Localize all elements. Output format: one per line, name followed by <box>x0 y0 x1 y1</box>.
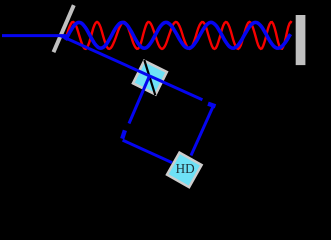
mirror M3 (right corner nub) <box>208 104 216 107</box>
mirror M1 (tilted partial mirror) <box>54 5 74 52</box>
mirror M2 (right end mirror) <box>296 15 306 65</box>
wire: left corner to HD <box>123 140 172 163</box>
mirror M4 (left corner nub) <box>122 130 125 138</box>
wire: beam from mirror through BS to right corner <box>60 36 202 100</box>
wire: input beam <box>2 34 67 37</box>
homodyne detector HD box <box>167 153 202 188</box>
svg-text:HD: HD <box>176 161 195 176</box>
wire: right corner to HD <box>191 105 214 155</box>
blue wave (fundamental beam) <box>66 22 291 48</box>
BS interface (black diagonal) <box>144 60 155 95</box>
beam splitter BS (cyan square) <box>133 61 167 95</box>
red wave (frequency-doubled beam) <box>67 22 292 49</box>
wire: reflected beam BS down-left <box>129 76 149 124</box>
